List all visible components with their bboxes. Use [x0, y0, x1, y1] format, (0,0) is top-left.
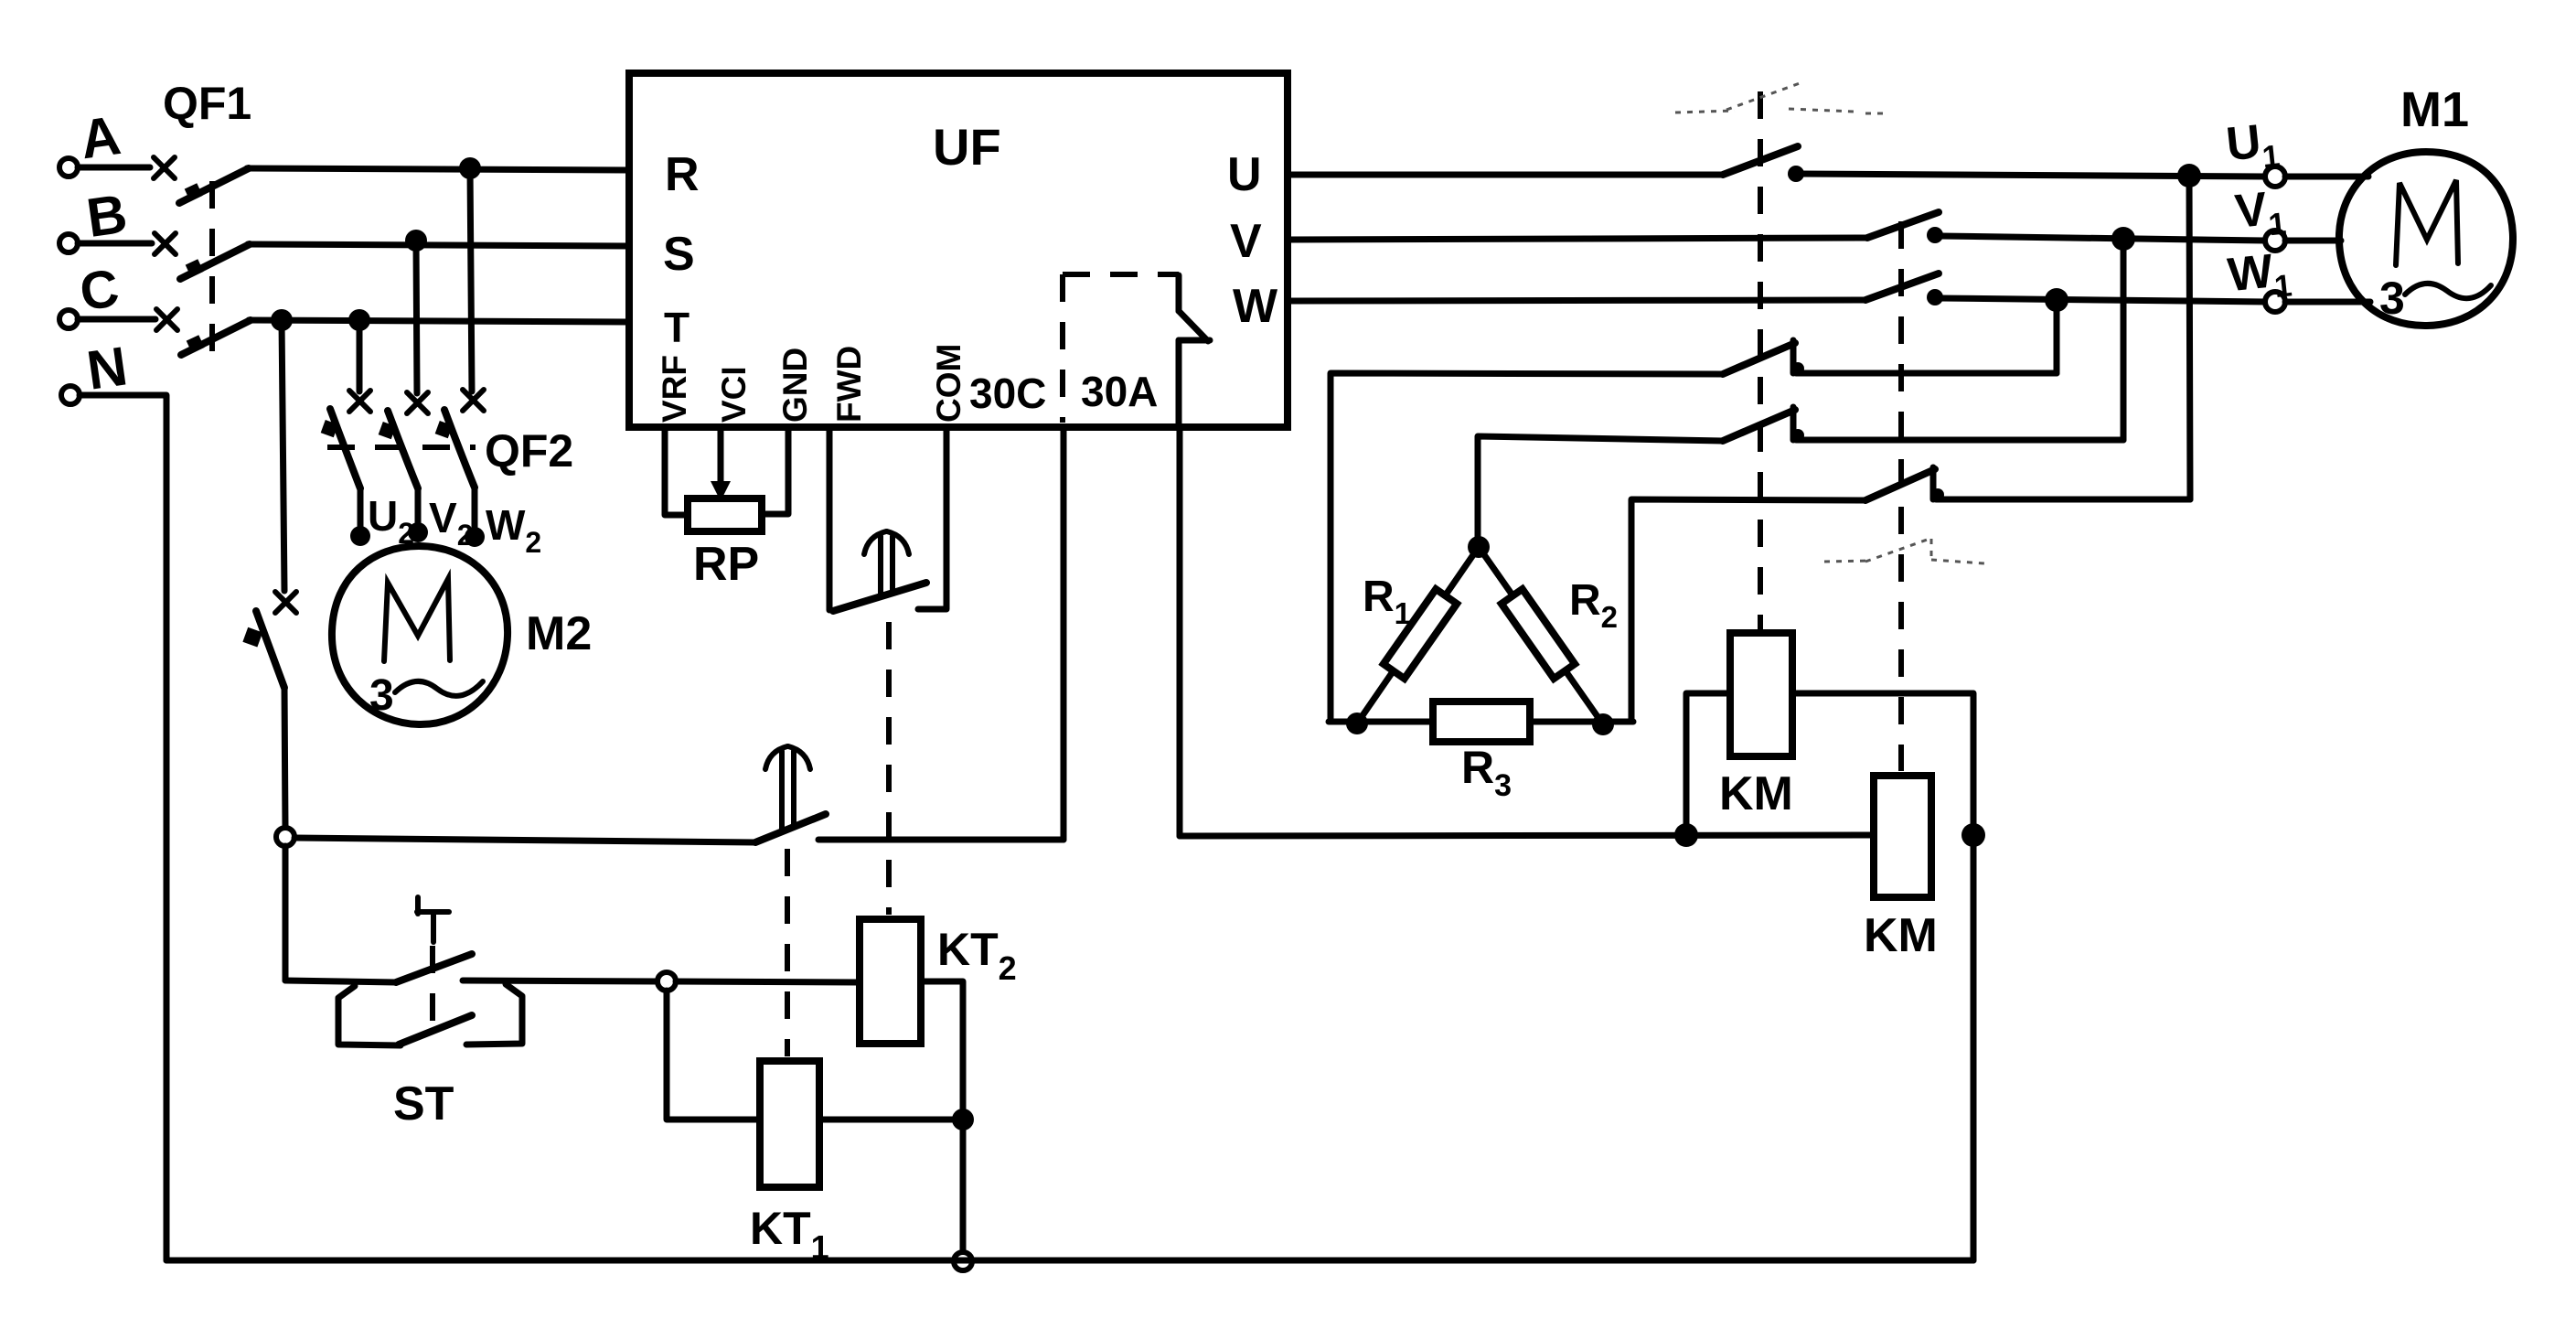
- resistor R3: [1433, 702, 1530, 742]
- resistor R2 leads: [1479, 547, 1603, 724]
- wire A junction down to QF2: [470, 168, 472, 391]
- wire circle to KT2 coil: [676, 981, 860, 982]
- switch ST dashed link: [430, 946, 435, 1032]
- contact KM line6 blade: [1865, 469, 1935, 500]
- svg-text:R: R: [665, 148, 700, 201]
- node B terminal: [59, 183, 131, 252]
- node U1 terminal: [2224, 113, 2285, 187]
- wire control down from circle: [283, 846, 289, 980]
- x mark A: [154, 157, 175, 178]
- junction on C line (QF2 feed): [348, 309, 370, 331]
- wire QF2 pole1 to M2: [358, 488, 364, 534]
- wire A to UF R pin: [247, 168, 629, 170]
- x mark QF2 pole 1: [349, 391, 370, 412]
- node delta bottom-right vertex: [1592, 713, 1614, 735]
- svg-text:M1: M1: [2400, 82, 2469, 137]
- contact KM line5 fixed bar: [1790, 407, 1797, 440]
- wire A terminal to QF1: [78, 165, 150, 171]
- motor M1: [2339, 152, 2513, 326]
- node A terminal: [59, 104, 124, 177]
- x mark B: [155, 233, 176, 254]
- wire U output to KM contact: [1288, 172, 1723, 178]
- contact KM U-phase blade: [1723, 146, 1798, 175]
- node KT junction circle: [657, 972, 676, 991]
- svg-text:W: W: [1233, 280, 1278, 333]
- node W1 terminal: [2226, 242, 2294, 312]
- wire U contact to U1: [1800, 174, 2266, 177]
- wire W contact to W1: [1940, 298, 2266, 302]
- svg-text:30A: 30A: [1081, 368, 1158, 415]
- node U2: [350, 526, 370, 546]
- breaker QF1 pole C: [181, 320, 251, 355]
- wire KT1 to junction: [819, 1117, 963, 1123]
- junction W drop: [2045, 288, 2068, 312]
- x mark C: [156, 309, 177, 330]
- wire 30C down to control line: [1061, 427, 1067, 840]
- switch ST right bracket: [466, 984, 522, 1045]
- wire V drop down to line5: [2121, 239, 2127, 440]
- breaker QF1 pole B: [180, 244, 250, 279]
- svg-text:S: S: [663, 228, 695, 281]
- node control circle (left): [276, 828, 294, 846]
- svg-text:QF1: QF1: [163, 78, 251, 129]
- wire KM1 branch left riser: [1686, 693, 1730, 835]
- dashed link KT2-contact to KT1 coil: [785, 849, 790, 1056]
- breaker QF2 pole 1 blade: [321, 409, 360, 488]
- wire U1 to M1: [2285, 174, 2368, 180]
- wire V contact to V1: [1940, 236, 2265, 241]
- node N terminal: [61, 335, 131, 404]
- contact KM W-phase fixed dot: [1927, 289, 1943, 305]
- svg-text:ST: ST: [393, 1077, 454, 1130]
- wire KT2 coil to right riser: [921, 981, 963, 1120]
- wire C junction down to isolator switch: [282, 320, 284, 591]
- faint erased switch bottom (KM2 aux): [1824, 538, 1984, 563]
- contact KM line5 blade: [1723, 410, 1795, 441]
- node delta bottom-left vertex: [1346, 713, 1368, 734]
- QF1 mechanical dashed link: [209, 181, 215, 359]
- wire W1 to M1: [2285, 299, 2370, 305]
- node W2: [465, 527, 485, 547]
- wire W drop down to line4: [2054, 300, 2060, 373]
- junction U drop: [2177, 164, 2201, 188]
- wire line5 right segment (V feed): [1796, 437, 2123, 444]
- wire line5 left segment to delta top: [1478, 436, 1723, 541]
- switch ST left bracket: [338, 986, 401, 1045]
- dashed link KM2 (right contact group): [1898, 221, 1904, 771]
- contact KT2 delayed blade: [755, 814, 826, 842]
- relay 30C-30A contact: [1179, 275, 1210, 427]
- breaker QF2 pole 3 blade: [435, 410, 475, 488]
- wire B to UF S pin: [248, 244, 629, 246]
- svg-text:N: N: [83, 335, 131, 401]
- wire KT2 contact to 30C: [818, 837, 1064, 843]
- wire U drop down to line6: [2189, 176, 2190, 499]
- wire B terminal to QF1: [78, 241, 152, 247]
- junction KM branch left: [1674, 823, 1698, 847]
- node V1 terminal: [2233, 181, 2288, 251]
- node bottom line circle: [954, 1252, 972, 1270]
- wire line4 left segment to delta bottom-left: [1331, 373, 1723, 721]
- QF2 mechanical dashed link: [327, 445, 476, 450]
- wire C terminal to QF1: [78, 316, 155, 323]
- svg-text:RP: RP: [693, 538, 759, 591]
- node V2: [408, 522, 428, 542]
- contact KM V-phase blade: [1867, 212, 1939, 238]
- wire 30A down to control line: [1177, 427, 1183, 836]
- switch isolator blade (M2 branch): [242, 611, 284, 688]
- junction on A line: [459, 157, 481, 179]
- wire GND pin to RP right: [762, 427, 788, 514]
- wire KT junction down to bottom line: [960, 1120, 967, 1251]
- resistor R2: [1502, 589, 1575, 679]
- svg-text:QF2: QF2: [485, 425, 573, 477]
- resistor R1: [1384, 589, 1457, 679]
- junction on B line: [405, 230, 427, 252]
- svg-text:VCI: VCI: [715, 366, 753, 423]
- junction on C line (control feed): [271, 309, 293, 331]
- svg-text:U: U: [1227, 148, 1262, 201]
- dashed link FWD contact to KT2: [886, 622, 892, 915]
- wire B junction down to QF2: [416, 241, 417, 393]
- inverter UF box: [629, 73, 1288, 427]
- svg-text:KM: KM: [1864, 909, 1938, 962]
- breaker QF2 pole 2 blade: [379, 411, 418, 488]
- svg-text:3: 3: [369, 671, 394, 720]
- svg-text:A: A: [77, 104, 124, 170]
- x mark QF2 pole 2: [407, 392, 428, 413]
- contact KM line4 corner dot: [1791, 362, 1804, 375]
- relay 30C-30A dashed link inside UF: [1063, 272, 1179, 277]
- wire COM pin down: [918, 427, 946, 609]
- wire bottom return line: [166, 1258, 1973, 1264]
- spring-return symbol on FWD contact: [864, 531, 909, 597]
- junction V drop: [2111, 227, 2135, 251]
- contact KM line4 blade: [1723, 343, 1795, 374]
- contact KM line5 corner dot: [1791, 429, 1804, 442]
- node delta top vertex: [1468, 536, 1490, 558]
- svg-text:FWD: FWD: [830, 346, 868, 423]
- contact KM line6 fixed bar: [1930, 467, 1937, 499]
- wire C to UF T pin: [249, 320, 629, 322]
- wire ST line left: [285, 980, 396, 982]
- switch FWD-COM blade: [833, 583, 926, 611]
- svg-text:3: 3: [2379, 273, 2405, 324]
- contact KM W-phase blade: [1865, 273, 1939, 300]
- junction KT branch: [952, 1109, 974, 1130]
- contact KM line4 fixed bar: [1790, 340, 1797, 373]
- node C terminal: [59, 258, 123, 328]
- potentiometer RP: [688, 498, 762, 531]
- wire KM1 branch right side: [1792, 693, 1973, 835]
- svg-text:30C: 30C: [969, 370, 1046, 417]
- contact KM V-phase fixed dot: [1927, 227, 1943, 243]
- resistor R1 leads: [1357, 547, 1479, 723]
- wire KT1 parallel branch left: [667, 991, 760, 1120]
- coil KM1: [1730, 633, 1792, 756]
- wire V output to KM contact: [1288, 238, 1867, 240]
- svg-text:V: V: [1230, 215, 1262, 268]
- coil KM2: [1874, 776, 1931, 897]
- wire line4 right segment (W feed): [1796, 370, 2057, 377]
- contact KM U-phase fixed dot: [1788, 166, 1804, 182]
- x mark QF2 pole 3: [463, 390, 484, 411]
- coil KT2: [860, 919, 921, 1044]
- svg-text:M2: M2: [526, 607, 592, 660]
- breaker QF1 pole A: [179, 168, 249, 203]
- wire QF2 pole2 to M2: [415, 488, 422, 530]
- coil KT1: [760, 1061, 819, 1187]
- switch ST lower blade: [399, 1015, 472, 1045]
- wire C junction down to QF2: [357, 320, 363, 391]
- svg-text:VRF: VRF: [656, 355, 693, 423]
- svg-text:GND: GND: [776, 348, 814, 423]
- wire FWD pin down: [827, 427, 833, 610]
- svg-text:KM: KM: [1719, 767, 1793, 820]
- wire ST to KT junction circle: [463, 980, 658, 981]
- switch ST upper blade: [396, 954, 472, 982]
- wire line6 left segment to delta bottom-right: [1631, 499, 1865, 721]
- wire VCI pin arrow to RP wiper: [711, 427, 731, 501]
- wire delta bottom: [1329, 719, 1633, 725]
- x mark isolator: [275, 592, 296, 613]
- svg-text:COM: COM: [930, 344, 967, 423]
- svg-text:B: B: [83, 183, 131, 249]
- wire N down the left side: [80, 395, 166, 1260]
- wire isolator to control circle: [284, 688, 285, 828]
- junction KM branch right: [1961, 823, 1985, 847]
- delay fork symbol on KT2 contact: [765, 746, 810, 830]
- wire V1 to M1: [2285, 238, 2341, 244]
- svg-text:C: C: [76, 258, 123, 322]
- dashed link KM1 (left contact group): [1758, 91, 1763, 631]
- motor M2: [332, 546, 508, 724]
- faint erased switch top (KM1 aux): [1675, 83, 1884, 113]
- control line from 30A to KM branch: [1180, 835, 1874, 836]
- wire KM branch down to bottom line: [1971, 835, 1977, 1260]
- svg-text:UF: UF: [933, 118, 1001, 176]
- contact KM line6 corner dot: [1931, 488, 1944, 501]
- switch ST T-handle: [417, 897, 449, 942]
- wire W output to KM contact: [1288, 300, 1865, 301]
- wire VRF pin to RP left: [665, 427, 688, 515]
- wire control line to KT2 contact: [294, 838, 755, 842]
- wire line6 right segment (U feed): [1936, 497, 2190, 503]
- svg-text:T: T: [664, 304, 689, 351]
- wire QF2 pole3 to M2: [472, 488, 478, 535]
